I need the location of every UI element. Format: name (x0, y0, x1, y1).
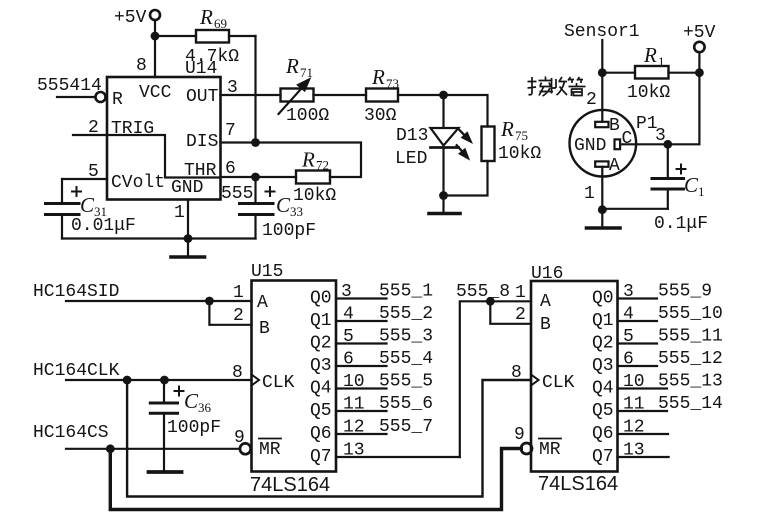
svg-text:R: R (285, 54, 299, 78)
svg-text:Q1: Q1 (592, 311, 614, 331)
node +5V junction (151, 32, 160, 41)
arrow of R71 (279, 89, 302, 114)
svg-text:R: R (301, 148, 315, 172)
wire sensor junction down to P1 (601, 73, 603, 122)
node sensor junction (598, 68, 607, 77)
IC U16 74LS164 (531, 281, 618, 472)
svg-text:7: 7 (225, 121, 236, 141)
svg-text:HC164CLK: HC164CLK (33, 361, 120, 381)
svg-text:B: B (609, 116, 620, 136)
wire Q5 (U16) (618, 410, 668, 412)
node SID junction (205, 297, 214, 306)
svg-text:1: 1 (233, 283, 244, 303)
wire Q6 (U15) (336, 433, 387, 435)
svg-text:LED: LED (395, 149, 427, 169)
wire LED cathode down (442, 149, 444, 196)
pin B contact (595, 122, 608, 127)
capacitor C33 (254, 177, 256, 202)
wire LED anode (442, 95, 444, 127)
svg-text:+5V: +5V (114, 8, 147, 28)
svg-text:Q7: Q7 (592, 447, 614, 467)
svg-text:71: 71 (300, 65, 313, 80)
svg-text:8: 8 (511, 363, 522, 383)
wire R73 to LED node (398, 94, 444, 96)
svg-text:555_8: 555_8 (456, 282, 510, 302)
label R69 (199, 5, 227, 31)
label R71 (285, 54, 313, 80)
bubble on R pin (96, 92, 106, 102)
wire GND pin 1 (187, 200, 189, 239)
wire junction to R69 (155, 35, 196, 37)
svg-text:Q3: Q3 (310, 356, 332, 376)
svg-text:5: 5 (343, 327, 354, 347)
capacitor C36 (163, 380, 165, 402)
svg-text:U15: U15 (251, 262, 283, 282)
wire HC164CLK (66, 379, 252, 381)
svg-text:10kΩ: 10kΩ (627, 83, 670, 103)
svg-text:3: 3 (623, 282, 634, 302)
bus CS down and right (thick) (110, 449, 521, 510)
label R73 (371, 65, 399, 91)
wire junction to R1 (602, 72, 635, 74)
internal connection TRIG to THR (107, 135, 221, 178)
svg-text:Q2: Q2 (310, 334, 332, 354)
wire Q5 (U15) (336, 410, 387, 412)
svg-text:CVolt: CVolt (111, 173, 165, 193)
wire Q4 (U16) (618, 387, 668, 389)
svg-text:555_3: 555_3 (379, 327, 433, 347)
svg-text:C: C (684, 173, 699, 197)
svg-text:VCC: VCC (139, 83, 172, 103)
wire Q3 (U15) (336, 365, 387, 367)
svg-text:U14: U14 (185, 59, 217, 79)
svg-text:+5V: +5V (683, 23, 716, 43)
wire Q2 (U16) (618, 342, 658, 344)
svg-text:10: 10 (623, 372, 645, 392)
connector P1 circle (570, 110, 637, 177)
svg-text:OUT: OUT (186, 87, 219, 107)
svg-text:74LS164: 74LS164 (538, 473, 618, 495)
resistor R1 (635, 66, 669, 79)
svg-text:GND: GND (574, 136, 606, 156)
svg-text:8: 8 (232, 363, 243, 383)
label C33 (276, 193, 303, 219)
label C1 (684, 173, 705, 199)
bubble MR (U16) (521, 443, 532, 454)
svg-text:555_4: 555_4 (379, 349, 433, 369)
node LED top (439, 91, 448, 100)
wire +5V terminal down (698, 52, 700, 72)
wire Q2 (U15) (336, 342, 387, 344)
ground (P1) (601, 210, 603, 228)
wire Sensor1 down (601, 40, 603, 73)
node 555_8 junction (486, 297, 495, 306)
svg-text:U16: U16 (531, 264, 563, 284)
svg-text:555_5: 555_5 (379, 372, 433, 392)
svg-text:73: 73 (386, 76, 399, 91)
svg-text:33: 33 (290, 204, 303, 219)
wire node to R75 top (444, 95, 488, 127)
pin C contact (615, 139, 621, 149)
bus CLK down and right (127, 380, 531, 497)
svg-text:D13: D13 (396, 126, 428, 146)
svg-text:6: 6 (343, 350, 354, 370)
wire CVolt pin 5 (62, 178, 107, 180)
svg-text:4: 4 (343, 305, 354, 325)
resistor R72 (296, 171, 330, 184)
svg-text:12: 12 (623, 418, 645, 438)
plus C1 (677, 165, 686, 174)
svg-text:1: 1 (658, 54, 665, 69)
svg-text:C: C (276, 193, 291, 217)
plus C36 (175, 387, 184, 396)
node C1 top (663, 140, 672, 149)
node CS junction (106, 444, 115, 453)
wire R69 right to vertical (229, 35, 256, 37)
wire 555414 input (57, 96, 95, 98)
svg-text:555_7: 555_7 (379, 417, 433, 437)
LED arrows (459, 130, 465, 136)
svg-text:Q5: Q5 (592, 401, 614, 421)
capacitor C31 (61, 179, 63, 202)
svg-text:12: 12 (343, 418, 365, 438)
svg-text:11: 11 (343, 395, 365, 415)
wire R75 bottom to node (444, 161, 488, 196)
wire +5V to junction (154, 20, 156, 36)
ground (555) (187, 239, 189, 258)
wire Q3 (U16) (618, 365, 658, 367)
svg-text:HC164CS: HC164CS (33, 423, 109, 443)
variable resistor R71 (281, 89, 314, 102)
node ground junction (184, 234, 193, 243)
svg-text:10: 10 (343, 372, 365, 392)
wire DIS pin 7 (221, 141, 256, 143)
plus C31 (72, 187, 81, 196)
svg-text:555_6: 555_6 (379, 394, 433, 414)
svg-text:R: R (371, 65, 385, 89)
svg-text:69: 69 (214, 16, 227, 31)
svg-text:555_12: 555_12 (658, 349, 723, 369)
svg-text:B: B (259, 319, 270, 339)
wire pin A down (601, 167, 603, 210)
svg-text:555414: 555414 (37, 76, 102, 96)
svg-text:CLK: CLK (262, 373, 295, 393)
wire DIS loop to R72 (256, 143, 362, 178)
svg-text:13: 13 (623, 441, 645, 461)
ground bus wire (62, 237, 256, 239)
svg-text:Q7: Q7 (310, 447, 332, 467)
svg-text:A: A (609, 156, 620, 176)
svg-text:555_13: 555_13 (658, 372, 723, 392)
svg-text:555_9: 555_9 (658, 282, 712, 302)
wire THR pin 6 (221, 176, 256, 178)
svg-text:R: R (500, 117, 514, 141)
wire HC164SID (66, 300, 252, 302)
wire +5V rail down to pin3 line (668, 73, 700, 145)
svg-text:555_14: 555_14 (658, 394, 723, 414)
svg-text:555_11: 555_11 (658, 327, 723, 347)
svg-text:Q0: Q0 (592, 289, 614, 309)
svg-text:Q0: Q0 (310, 289, 332, 309)
svg-text:1: 1 (698, 184, 705, 199)
svg-text:Q2: Q2 (592, 334, 614, 354)
wire Q7 (U16) (618, 456, 669, 458)
wire HC164CS (66, 448, 240, 450)
svg-text:11: 11 (623, 395, 645, 415)
svg-text:100pF: 100pF (167, 418, 221, 438)
wire Q6 (U16) (618, 433, 669, 435)
svg-text:75: 75 (515, 128, 528, 143)
svg-text:0.01μF: 0.01μF (71, 216, 136, 236)
IC U14 555 body (107, 77, 221, 200)
wire 555_8 branch to B (U16) (490, 301, 531, 324)
wire THR to R72 (256, 176, 297, 178)
svg-text:3: 3 (341, 282, 352, 302)
plus C33 (266, 187, 275, 196)
node CLK junction 2 (C36) (160, 376, 169, 385)
label C36 (184, 389, 212, 415)
svg-text:2: 2 (233, 306, 244, 326)
svg-text:R: R (199, 5, 213, 29)
wire junction to VCC pin 8 (154, 36, 156, 77)
svg-text:MR: MR (539, 440, 561, 460)
svg-text:74LS164: 74LS164 (250, 474, 330, 496)
wire Q1 (U15) (336, 320, 387, 322)
svg-text:30Ω: 30Ω (364, 106, 397, 126)
svg-text:A: A (257, 293, 268, 313)
svg-text:1: 1 (174, 203, 185, 223)
svg-text:4: 4 (623, 305, 634, 325)
node P1 ground junction (598, 205, 607, 214)
svg-text:555_10: 555_10 (658, 304, 723, 324)
wire Q4 (U15) (336, 387, 387, 389)
wire Q1 (U16) (618, 320, 658, 322)
node CLK junction 1 (123, 376, 132, 385)
ground (LED) (442, 196, 444, 214)
svg-text:10kΩ: 10kΩ (498, 144, 541, 164)
node LED bottom (439, 191, 448, 200)
svg-text:2: 2 (586, 90, 597, 110)
clock wedge (U16) (531, 375, 539, 386)
label C31 (80, 193, 107, 219)
svg-text:Q5: Q5 (310, 401, 332, 421)
svg-text:100Ω: 100Ω (286, 106, 329, 126)
wire Q0 (U15) (336, 297, 387, 299)
svg-text:5: 5 (623, 327, 634, 347)
terminal +5V (left) (150, 10, 160, 20)
svg-text:1: 1 (515, 283, 526, 303)
label R72 (301, 148, 329, 173)
svg-text:Q4: Q4 (592, 379, 614, 399)
svg-text:C: C (622, 129, 633, 149)
wire SID branch to B (209, 301, 251, 325)
wire TRIG pin 2 (73, 134, 107, 136)
wire Q7 (U15) to riser (336, 456, 460, 458)
node THR junction (251, 173, 260, 182)
svg-text:Q6: Q6 (310, 424, 332, 444)
svg-text:Q3: Q3 (592, 356, 614, 376)
svg-text:555_1: 555_1 (379, 282, 433, 302)
terminal +5V (right) (694, 42, 704, 52)
node DIS junction (251, 138, 260, 147)
svg-text:MR: MR (259, 440, 281, 460)
svg-text:555_2: 555_2 (379, 304, 433, 324)
resistor R69 (196, 30, 229, 43)
svg-text:10kΩ: 10kΩ (293, 186, 336, 206)
svg-text:Q1: Q1 (310, 311, 332, 331)
svg-text:C: C (184, 389, 199, 413)
svg-text:A: A (540, 292, 551, 312)
svg-text:B: B (540, 315, 551, 335)
svg-text:GND: GND (171, 178, 203, 198)
svg-text:Q4: Q4 (310, 379, 332, 399)
ground (C36) (149, 470, 182, 474)
svg-text:0.1μF: 0.1μF (654, 214, 708, 234)
IC U15 74LS164 (252, 281, 337, 472)
wire R71 to R73 (314, 94, 367, 96)
label R1 (643, 43, 665, 69)
wire vertical R69 to DIS junction (254, 36, 256, 143)
svg-text:Q6: Q6 (592, 424, 614, 444)
svg-text:8: 8 (136, 56, 147, 76)
svg-text:9: 9 (514, 425, 525, 445)
wire OUT pin 3 to R71 (221, 94, 281, 96)
wire R1 to +5V rail (669, 72, 700, 74)
LED D13 diode (431, 128, 459, 146)
wire pin C to node (620, 143, 668, 145)
svg-text:CLK: CLK (542, 373, 575, 393)
svg-text:13: 13 (343, 441, 365, 461)
svg-text:72: 72 (316, 158, 329, 173)
clock wedge (U15) (252, 375, 260, 386)
svg-text:6: 6 (623, 350, 634, 370)
capacitor C1 (667, 144, 669, 177)
svg-text:555: 555 (221, 184, 253, 204)
svg-text:100pF: 100pF (262, 221, 316, 241)
svg-text:36: 36 (198, 400, 212, 415)
svg-text:HC164SID: HC164SID (33, 282, 119, 302)
resistor R73 (366, 89, 398, 102)
label receiver tube (Chinese) (528, 77, 586, 97)
label R75 (500, 117, 528, 143)
resistor R75 (482, 127, 495, 162)
svg-text:R: R (112, 90, 123, 110)
svg-text:C: C (80, 193, 95, 217)
svg-text:R: R (643, 43, 657, 67)
svg-text:2: 2 (515, 305, 526, 325)
wire Q7 riser to 555_8 (460, 301, 531, 457)
pin A contact (595, 161, 608, 166)
svg-text:DIS: DIS (186, 132, 218, 152)
wire Q0 (U16) (618, 297, 658, 299)
bubble MR (U15) (240, 443, 251, 454)
svg-text:1: 1 (584, 184, 595, 204)
node +5V rail junction (695, 68, 704, 77)
wire C1 bottom to junction (602, 208, 668, 210)
